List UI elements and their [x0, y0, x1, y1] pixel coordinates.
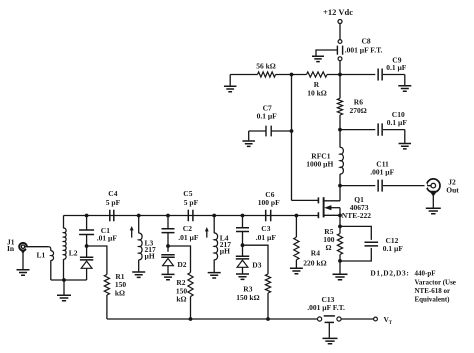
svg-text:270Ω: 270Ω — [350, 106, 367, 115]
svg-text:0.1 µF: 0.1 µF — [257, 112, 278, 121]
svg-text:.001 µF: .001 µF — [370, 167, 394, 176]
svg-text:kΩ: kΩ — [115, 288, 125, 297]
svg-text:.001 µF F.T.: .001 µF F.T. — [345, 46, 383, 55]
svg-text:5 pF: 5 pF — [184, 198, 199, 207]
svg-text:.01 µF: .01 µF — [256, 233, 277, 242]
svg-text:0.1 µF: 0.1 µF — [386, 63, 407, 72]
svg-text:µH: µH — [220, 247, 230, 256]
svg-text:NTE-618 or: NTE-618 or — [415, 287, 451, 295]
svg-text:D2: D2 — [177, 260, 186, 269]
svg-text:L2: L2 — [69, 248, 78, 257]
svg-text:NTE-222: NTE-222 — [342, 211, 371, 220]
svg-text:Ω: Ω — [326, 243, 332, 252]
svg-text:+12 Vdc: +12 Vdc — [323, 7, 353, 17]
svg-text:440-pF: 440-pF — [415, 270, 436, 278]
svg-text:.01 µF: .01 µF — [97, 233, 118, 242]
svg-text:C5: C5 — [183, 189, 192, 198]
svg-text:.001 µF F.T.: .001 µF F.T. — [307, 303, 345, 312]
svg-text:C8: C8 — [362, 37, 371, 46]
svg-text:150 kΩ: 150 kΩ — [236, 293, 259, 302]
svg-text:56 kΩ: 56 kΩ — [256, 61, 276, 70]
svg-text:R4: R4 — [311, 249, 320, 258]
svg-text:kΩ: kΩ — [176, 294, 186, 303]
svg-text:1000 µH: 1000 µH — [306, 160, 333, 169]
svg-text:Equivalent): Equivalent) — [415, 296, 451, 304]
svg-text:100 pF: 100 pF — [258, 198, 280, 207]
svg-text:L1: L1 — [37, 251, 46, 260]
svg-text:10 kΩ: 10 kΩ — [307, 88, 327, 97]
svg-text:220 kΩ: 220 kΩ — [303, 258, 326, 267]
svg-text:5 pF: 5 pF — [106, 198, 121, 207]
svg-text:.01 µF: .01 µF — [178, 233, 199, 242]
svg-text:D3: D3 — [252, 260, 261, 269]
svg-text:µH: µH — [145, 251, 155, 260]
svg-text:Out: Out — [446, 186, 459, 195]
svg-text:In: In — [7, 244, 15, 253]
svg-text:Varactor (Use: Varactor (Use — [415, 279, 456, 287]
svg-text:0.1 µF: 0.1 µF — [383, 244, 404, 253]
svg-text:0.1 µF: 0.1 µF — [387, 118, 408, 127]
svg-text:C4: C4 — [108, 189, 117, 198]
svg-text:D1,D2,D3:: D1,D2,D3: — [370, 269, 409, 278]
